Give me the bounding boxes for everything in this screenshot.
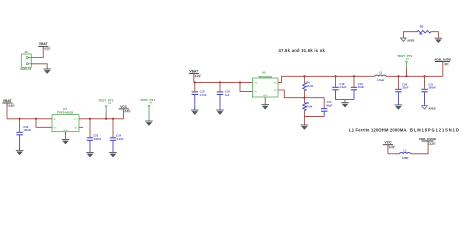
svg-text:100nF: 100nF (428, 85, 436, 89)
ground (R5) (301, 125, 309, 130)
svg-text:4.2V: 4.2V (44, 47, 50, 51)
svg-text:3.3V: 3.3V (429, 141, 435, 145)
junction C16 (219, 81, 221, 83)
svg-text:10uF: 10uF (358, 85, 365, 89)
capacitor C24 (110, 119, 124, 152)
svg-text:VCC: VCC (385, 141, 393, 145)
capacitor C21 (421, 76, 436, 105)
svg-text:L1 Ferrite 120OHM 2000MA: L1 Ferrite 120OHM 2000MA (349, 128, 407, 133)
wire VCC to L1 (388, 153, 400, 155)
wire U5 FB to divider (278, 90, 324, 98)
wire C18/C19 bottom (336, 100, 355, 103)
svg-text:GND: GND (263, 95, 268, 97)
junction FB node (303, 97, 305, 99)
capacitor C19 (351, 76, 365, 99)
capacitor C22 (16, 119, 31, 150)
svg-text:0R: 0R (419, 32, 422, 36)
power flag ADB_AVDD (434, 57, 452, 76)
svg-text:ADB_AVDD: ADB_AVDD (434, 57, 452, 61)
svg-text:R5: R5 (306, 101, 310, 105)
svg-text:100nF: 100nF (94, 137, 102, 141)
svg-text:TEST_PT1: TEST_PT1 (140, 98, 155, 102)
junction C23 (89, 118, 91, 120)
ground (C23) (86, 153, 94, 158)
junction C22 (19, 118, 21, 120)
wire VOUT rail (282, 75, 443, 77)
svg-text:VBAT: VBAT (3, 99, 12, 103)
ground (J5) (43, 69, 51, 74)
svg-text:C15: C15 (200, 90, 205, 94)
svg-text:L1: L1 (404, 148, 408, 152)
svg-text:GND: GND (63, 130, 68, 132)
svg-text:C24: C24 (116, 134, 121, 138)
svg-text:3.3V: 3.3V (125, 109, 131, 113)
svg-text:45.3k: 45.3k (306, 84, 313, 88)
svg-text:L2: L2 (379, 70, 383, 74)
junction C24 (112, 118, 114, 120)
wire J5 pin1 to VBAT (31, 46, 43, 57)
ferrite bead L1 (400, 148, 411, 159)
power flag VCC (bottom) (383, 141, 395, 154)
wire VBAT to U5 VIN (194, 81, 253, 83)
svg-text:30.9k: 30.9k (306, 105, 313, 109)
ground (C20) (395, 105, 403, 110)
wire U7 GND stem (65, 132, 67, 139)
wire U7 EN bridge (36, 119, 52, 128)
wire U7 OUT to VCC (79, 118, 124, 120)
svg-text:J5: J5 (24, 50, 28, 54)
connector J5 (20, 50, 32, 71)
inductor L2 (375, 70, 386, 82)
ground (C15) (191, 110, 199, 115)
svg-text:EN: EN (53, 127, 56, 129)
svg-text:C17: C17 (327, 100, 332, 104)
svg-text:AVSS: AVSS (407, 38, 414, 42)
svg-text:45pF: 45pF (326, 104, 333, 108)
power flag VCC (LDO output) (119, 105, 131, 119)
svg-text:VCC: VCC (120, 105, 128, 109)
svg-text:1.5uH: 1.5uH (377, 78, 384, 82)
capacitor C23 (87, 119, 102, 152)
wire L1 to ADB_DVDD (411, 141, 429, 154)
junction C19 (353, 75, 355, 77)
ground (R2 right) (435, 38, 443, 43)
ground (C24) (109, 153, 117, 158)
wire U7 NC stub (79, 126, 83, 128)
ground (U5) (261, 105, 269, 110)
svg-text:2.2uF: 2.2uF (117, 137, 124, 141)
test point TEST_PT4 (397, 54, 412, 77)
svg-text:4.7uF: 4.7uF (200, 93, 207, 97)
svg-text:120R: 120R (402, 156, 408, 160)
capacitor C16 (217, 82, 230, 109)
ground (C16) (216, 110, 224, 115)
capacitor C17 (321, 98, 333, 117)
svg-text:P1: P1 (149, 102, 152, 104)
wire VBAT stem (6, 103, 8, 119)
svg-text:ADB_DVDD: ADB_DVDD (419, 137, 437, 141)
svg-text:VIN: VIN (254, 82, 258, 84)
capacitor C15 (192, 82, 207, 109)
power flag VBAT (top) (38, 42, 50, 51)
svg-text:4.2V: 4.2V (195, 74, 201, 78)
svg-text:TEST_PT2: TEST_PT2 (99, 99, 114, 103)
junction C18 (335, 75, 337, 77)
svg-text:1uF: 1uF (225, 93, 230, 97)
regulator U7 TPS7A05 (52, 107, 79, 132)
svg-text:47.5k and 31.6k is ok: 47.5k and 31.6k is ok (279, 48, 326, 53)
svg-text:2.2uF: 2.2uF (339, 85, 346, 89)
ground (TEST_PT1) (145, 121, 153, 126)
wire U5 SW riser (278, 76, 282, 82)
junction C15 (194, 81, 196, 83)
svg-text:EN: EN (254, 91, 257, 93)
svg-text:4.2V: 4.2V (8, 103, 14, 107)
junction R4 top (303, 75, 305, 77)
svg-text:TPS62801: TPS62801 (258, 75, 273, 79)
svg-text:10uF: 10uF (402, 85, 409, 89)
svg-text:TEST_PT4: TEST_PT4 (397, 54, 412, 58)
svg-text:100uF: 100uF (23, 128, 31, 132)
resistor R2 (top right) (403, 24, 438, 38)
svg-text:3.3V: 3.3V (389, 145, 395, 149)
svg-text:P2: P2 (109, 103, 112, 105)
svg-text:VBAT: VBAT (189, 69, 198, 73)
wire VBAT to U7 IN (7, 118, 52, 120)
junction U7 EN (35, 118, 37, 120)
wire J5 pin2 to ground (31, 64, 47, 69)
ground (C18/C19) (341, 103, 349, 108)
svg-text:VBAT: VBAT (39, 42, 48, 46)
ground (C22) (16, 150, 24, 155)
svg-text:3V: 3V (445, 62, 448, 66)
junction U5 EN (239, 81, 241, 83)
wire U5 GND stem (264, 97, 266, 104)
capacitor C20 (395, 76, 409, 104)
wire U5 EN bridge (240, 82, 252, 91)
capacitor C18 (332, 76, 346, 99)
svg-text:TPS7A0533: TPS7A0533 (57, 111, 74, 115)
svg-text:R2: R2 (420, 24, 424, 28)
resistor R4 (303, 76, 314, 97)
power flag VBAT (buck input) (189, 69, 201, 82)
junction C21 (424, 75, 426, 77)
svg-text:BLM18PG121SN1D: BLM18PG121SN1D (410, 128, 460, 133)
junction C20 (397, 75, 399, 77)
wire R5 ground stem (303, 116, 305, 124)
svg-text:OUT: OUT (73, 119, 78, 121)
svg-text:53261-02: 53261-02 (20, 67, 32, 71)
ground (U7) (62, 140, 70, 145)
power flag ADB_DVDD (419, 137, 437, 145)
svg-text:C23: C23 (93, 134, 98, 138)
svg-text:AVSS: AVSS (428, 107, 435, 111)
regulator U5 TPS62801 (252, 71, 278, 97)
wire R5/C17 bottom (304, 115, 324, 117)
resistor R5 (303, 98, 313, 117)
svg-text:C16: C16 (225, 90, 230, 94)
ground AVSS (R2 left) (401, 38, 415, 42)
test point TEST_PT2 (99, 99, 114, 120)
svg-text:NC: NC (75, 127, 79, 129)
svg-text:U5: U5 (262, 71, 266, 75)
power flag VBAT (LDO input) (2, 99, 14, 108)
ground AVSS (C21) (422, 106, 436, 111)
test point TEST_PT1 (140, 98, 155, 121)
